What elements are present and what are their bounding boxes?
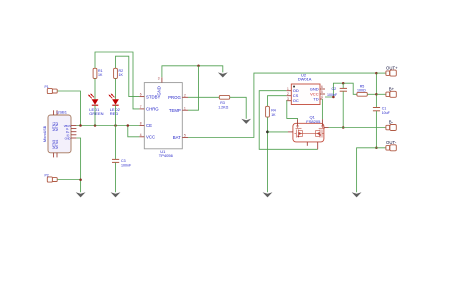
resistor R2 (114, 68, 124, 78)
svg-text:1.2KΩ: 1.2KΩ (218, 106, 228, 110)
U2 pin 4 TD stub (320, 95, 323, 99)
wire PROG to R3 (188, 96, 219, 98)
junction dot VCC jog (332, 96, 335, 99)
wire B+ stub (376, 93, 385, 95)
junction dot OUT- (375, 147, 378, 150)
wire R2 top to U1 STDBY (116, 56, 140, 96)
svg-text:OUT+: OUT+ (386, 65, 398, 70)
svg-text:4: 4 (140, 133, 142, 137)
wire OUT- stub and ground branch (357, 148, 386, 193)
U1 pin 7 CHRG stub (139, 105, 144, 109)
svg-text:R3: R3 (220, 101, 225, 105)
capacitor C3 (112, 159, 132, 167)
U1 pin 3 GND stub (top) (158, 77, 162, 83)
svg-text:PROG: PROG (168, 95, 181, 100)
svg-text:5: 5 (184, 134, 186, 138)
svg-text:TEMP: TEMP (169, 108, 181, 113)
svg-text:B-: B- (389, 120, 394, 125)
wire TEMP to GND net (188, 66, 199, 110)
resistor R5 (357, 84, 367, 96)
junction dot C2 bottom on B- line (342, 126, 345, 129)
junction dot LED1 rail (94, 124, 97, 127)
svg-text:100nF: 100nF (121, 163, 132, 167)
connector P1 IN+ (45, 85, 58, 94)
resistor R4 (266, 106, 277, 117)
wire R4 to ground (267, 117, 269, 192)
connector B- (386, 120, 396, 131)
connector P2 IN- (45, 174, 58, 183)
wire R2 to LED2 (115, 79, 117, 100)
svg-text:USB1: USB1 (57, 110, 68, 115)
connector OUT+ (386, 65, 398, 76)
wire CS to R4 (268, 96, 287, 107)
U1 pin 4 VCC stub (139, 133, 144, 137)
resistor R1 (93, 68, 103, 78)
wire OUT+ vertical to C1 and OUT- (375, 73, 377, 107)
wire R4 junction to Q1 left pin (268, 131, 289, 133)
U1 pin 5 BAT stub (182, 134, 188, 138)
svg-text:P1: P1 (45, 85, 49, 89)
svg-text:GND: GND (65, 137, 71, 141)
svg-text:GND: GND (157, 86, 162, 95)
svg-text:BAT: BAT (173, 135, 181, 140)
svg-text:OC: OC (293, 98, 299, 103)
wire OC to Q1 gate 1 (286, 101, 297, 120)
junction dot IN- / GND (79, 179, 82, 182)
svg-text:C2: C2 (332, 87, 337, 91)
svg-text:6: 6 (321, 85, 323, 89)
svg-text:GREEN: GREEN (89, 111, 103, 116)
connector OUT- (386, 140, 397, 151)
svg-text:1K: 1K (271, 113, 276, 117)
svg-text:6: 6 (140, 93, 142, 97)
svg-text:1K: 1K (119, 73, 124, 77)
junction dot R4 / Q1 S1 (266, 131, 269, 134)
wire P2 to ground line (57, 179, 80, 181)
wire VCC jog to top rail (325, 83, 357, 97)
U1 pin 1 TEMP stub (182, 106, 188, 110)
junction dot LED2 rail (114, 124, 117, 127)
capacitor C2 (327, 83, 347, 127)
wire OUT+ stub (376, 72, 385, 74)
ground arrow top (U1 GND) (218, 72, 228, 77)
capacitor C1 (373, 107, 391, 148)
svg-text:FS8205: FS8205 (306, 119, 321, 124)
svg-text:4: 4 (321, 95, 323, 99)
svg-text:CHRG: CHRG (146, 107, 159, 112)
svg-text:7: 7 (140, 105, 142, 109)
connector B+ (386, 87, 396, 98)
svg-text:8: 8 (140, 122, 142, 126)
wire OD left and down to Q1 source line (259, 91, 318, 150)
svg-text:MicroUSB: MicroUSB (43, 125, 47, 142)
svg-text:B+: B+ (389, 87, 395, 92)
svg-text:P2: P2 (45, 174, 49, 178)
svg-text:3: 3 (158, 77, 160, 81)
ground arrow below R3 (241, 119, 251, 124)
LED LED1 GREEN (88, 94, 104, 117)
wire VBUS rail to U1 CE (76, 125, 139, 127)
op-amp U2 DW01A body (291, 72, 320, 104)
U2 pin 2 CS stub (286, 92, 291, 96)
wire rail jog to U1 VCC (128, 126, 140, 137)
svg-text:100nF: 100nF (327, 93, 338, 97)
ground arrow below USB (76, 192, 86, 197)
resistor R3 (218, 95, 230, 109)
wire USB GND down to ground (76, 138, 80, 192)
wire P1 to VBUS rail (57, 91, 80, 126)
junction dot B+ (375, 93, 378, 96)
svg-text:1: 1 (287, 87, 289, 91)
ground arrow below C3 (111, 192, 121, 197)
wire B- line (Q1 to B- connector) (329, 127, 386, 129)
svg-text:3: 3 (287, 97, 289, 101)
wire TD to Q1 gate 2 (321, 99, 323, 119)
svg-text:1K: 1K (98, 73, 103, 77)
wire R1 to LED1 (94, 79, 96, 100)
svg-text:2: 2 (184, 93, 186, 97)
wire rail to capacitor C3 (115, 126, 117, 160)
svg-text:TD: TD (313, 97, 318, 102)
svg-text:MTN4: MTN4 (55, 140, 59, 149)
U2 pin 6 GND stub (320, 85, 325, 89)
svg-text:C1: C1 (382, 107, 387, 111)
svg-text:MTN2: MTN2 (55, 122, 59, 131)
junction dot OUT+ (375, 72, 378, 75)
svg-text:VCC: VCC (146, 135, 155, 140)
svg-text:1: 1 (184, 106, 186, 110)
wire R5 to B+ junction (367, 93, 376, 95)
wire LED1 to rail (94, 105, 96, 126)
svg-text:2: 2 (287, 92, 289, 96)
svg-text:TP4056: TP4056 (159, 153, 174, 158)
junction dot GND/TEMP (197, 65, 200, 68)
svg-text:10uF: 10uF (382, 111, 391, 115)
svg-text:RED: RED (110, 111, 119, 116)
svg-text:OUT-: OUT- (386, 140, 397, 145)
U2 pin 5 VCC stub (320, 90, 325, 94)
svg-text:100Ω: 100Ω (357, 89, 366, 93)
svg-text:5: 5 (321, 90, 323, 94)
transistor Q1 FS8205 (288, 115, 329, 150)
wire C3 to ground (115, 163, 117, 193)
U2 pin 1 OD stub (286, 87, 291, 91)
ground arrow right (OUT-) (352, 192, 362, 197)
svg-text:CE: CE (146, 123, 152, 128)
ground arrow below R4 (263, 192, 273, 197)
wire R3 to ground (230, 97, 247, 119)
U2 pin 3 OC stub (286, 97, 291, 101)
wire BAT to OUT+ rail (188, 73, 376, 137)
U1 pin 2 PROG stub (182, 93, 188, 97)
USB connector USB1 (43, 110, 76, 158)
svg-text:DW01A: DW01A (298, 77, 312, 82)
junction dot VBUS rail (79, 124, 82, 127)
U1 pin 6 STDBY stub (139, 93, 144, 97)
junction dot C2 top (342, 82, 345, 85)
junction dot CE/VCC jog (127, 124, 130, 127)
wire R1 top to U1 CHRG (95, 52, 139, 109)
U1 pin 8 CE stub (139, 122, 144, 126)
op-amp U1 TP4056 body (144, 83, 182, 159)
wire U1 GND to ground net (162, 66, 223, 78)
wire LED2 to rail (115, 105, 117, 126)
LED LED2 RED (109, 94, 121, 117)
